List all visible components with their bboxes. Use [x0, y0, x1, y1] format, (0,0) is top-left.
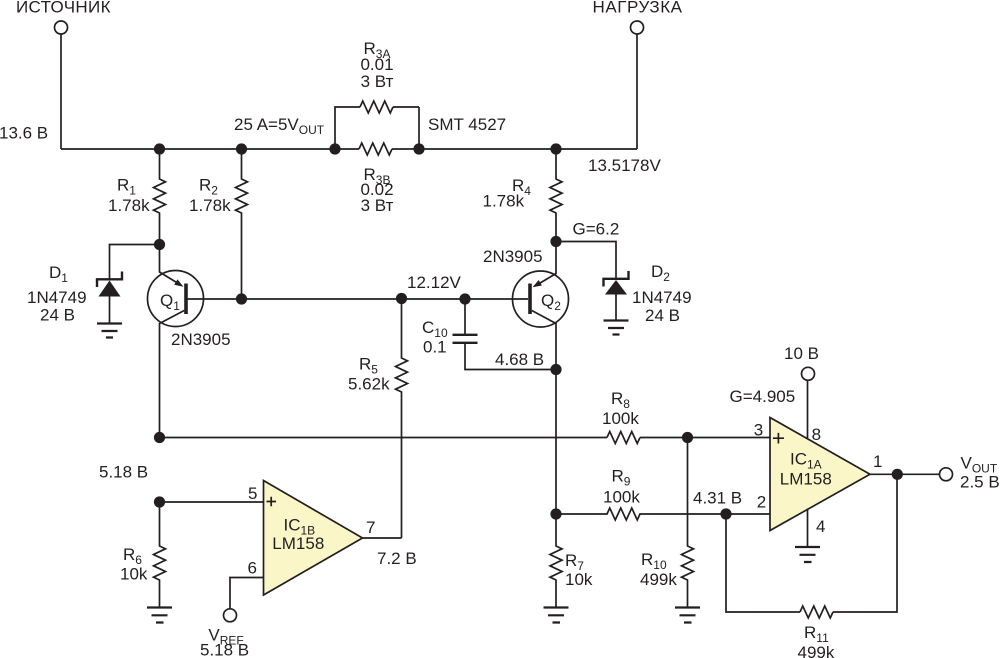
- wire base net Q1-Q2: [186, 298, 528, 300]
- svg-text:3 Вт: 3 Вт: [361, 72, 394, 91]
- wire output: [870, 473, 940, 475]
- svg-text:R2: R2: [199, 176, 218, 198]
- svg-text:R5: R5: [359, 355, 378, 377]
- ground R7: [544, 608, 569, 623]
- svg-text:R9: R9: [612, 467, 631, 489]
- ground D1: [97, 324, 122, 338]
- resistor R5: [396, 299, 408, 538]
- svg-text:R10: R10: [641, 550, 667, 572]
- svg-text:R1: R1: [117, 176, 136, 198]
- resistor R8: [607, 432, 640, 444]
- svg-text:10 В: 10 В: [784, 344, 819, 363]
- svg-text:13.6 В: 13.6 В: [0, 124, 48, 143]
- wire R8 to pin3: [640, 437, 770, 439]
- svg-text:5.18 В: 5.18 В: [200, 641, 249, 658]
- svg-text:R11: R11: [804, 623, 829, 645]
- node dot R8-R10: [682, 432, 693, 443]
- svg-text:1: 1: [873, 452, 882, 471]
- ground R6: [147, 608, 172, 623]
- terminal 10V: [802, 367, 815, 380]
- wire feedback R11: [726, 514, 800, 612]
- svg-text:1N4749: 1N4749: [632, 288, 692, 307]
- node dot R4-emitter: [550, 236, 561, 247]
- svg-text:1.78k: 1.78k: [108, 196, 150, 215]
- svg-text:R8: R8: [611, 389, 630, 411]
- svg-text:24 В: 24 В: [645, 306, 680, 325]
- svg-text:24 В: 24 В: [40, 306, 75, 325]
- op-amp IC1B: [264, 481, 363, 596]
- svg-text:13.5178V: 13.5178V: [588, 156, 661, 175]
- node dot base-R5: [396, 293, 407, 304]
- svg-text:3 Вт: 3 Вт: [361, 196, 394, 215]
- node dot Q2col-R9: [550, 508, 561, 519]
- plus IC1A: [773, 433, 784, 444]
- node dot rail-R4: [550, 143, 561, 154]
- node dot R1-D1: [154, 239, 165, 250]
- svg-text:Q2: Q2: [541, 291, 561, 313]
- node dot Q1col-pin5: [154, 496, 165, 507]
- resistor R4: [550, 149, 562, 242]
- capacitor C10: [464, 299, 466, 334]
- svg-text:2N3905: 2N3905: [171, 330, 231, 349]
- transistor Q1: [148, 271, 204, 327]
- svg-text:Q1: Q1: [160, 291, 180, 313]
- resistor R9: [556, 508, 770, 520]
- svg-text:LM158: LM158: [780, 470, 832, 489]
- svg-text:8: 8: [812, 425, 821, 444]
- svg-text:499k: 499k: [640, 570, 677, 589]
- svg-text:SMT 4527: SMT 4527: [428, 115, 506, 134]
- svg-text:G=4.905: G=4.905: [730, 387, 796, 406]
- svg-text:G=6.2: G=6.2: [573, 220, 620, 239]
- svg-text:0.1: 0.1: [423, 338, 447, 357]
- wire to R8: [160, 437, 608, 439]
- svg-text:D2: D2: [651, 262, 670, 284]
- svg-text:4.68 В: 4.68 В: [495, 350, 544, 369]
- svg-text:25 A=5VOUT: 25 A=5VOUT: [234, 115, 325, 137]
- svg-text:LM158: LM158: [272, 534, 324, 553]
- wire D2 branch: [556, 242, 616, 279]
- svg-text:2.5 В: 2.5 В: [960, 473, 1000, 492]
- svg-text:499k: 499k: [798, 643, 835, 658]
- node dot base-C10: [459, 293, 470, 304]
- wire source terminal down: [60, 34, 62, 150]
- svg-text:12.12V: 12.12V: [407, 273, 462, 292]
- node dot collector Q1 feedback: [154, 432, 165, 443]
- svg-text:6: 6: [248, 559, 257, 578]
- terminal ИСТОЧНИК: [55, 21, 68, 34]
- resistor R7: [550, 514, 562, 608]
- resistor R2: [236, 149, 248, 299]
- wire to pin5: [160, 501, 264, 503]
- node dot collector-C10 4.68V: [550, 364, 561, 375]
- wire IC1B output: [363, 537, 402, 539]
- wire pin4: [807, 509, 809, 548]
- svg-text:100k: 100k: [602, 409, 639, 428]
- diode D1 zener: [97, 272, 122, 288]
- node dot output: [892, 469, 903, 480]
- svg-text:2: 2: [757, 493, 766, 512]
- resistor R3A (zigzag upper branch): [360, 101, 393, 113]
- resistor R6: [154, 502, 166, 608]
- svg-text:НАГРУЗКА: НАГРУЗКА: [593, 0, 683, 17]
- wire load branch up: [636, 34, 638, 150]
- svg-text:5.18 В: 5.18 В: [99, 463, 148, 482]
- svg-text:5: 5: [248, 484, 257, 503]
- resistor R3B (zigzag on rail): [359, 143, 392, 155]
- resistor R11: [800, 606, 833, 618]
- svg-text:1.78k: 1.78k: [189, 196, 231, 215]
- ground IC1A: [795, 547, 820, 562]
- svg-text:1N4749: 1N4749: [27, 288, 87, 307]
- resistor R1: [154, 149, 166, 245]
- op-amp IC1A: [770, 418, 870, 531]
- terminal VREF: [224, 609, 237, 622]
- node dot R9-pin2: [720, 508, 731, 519]
- svg-text:1.78k: 1.78k: [483, 192, 525, 211]
- wire R3A branch: [335, 107, 419, 149]
- node dot rail-R3 left: [329, 143, 340, 154]
- svg-text:7.2 В: 7.2 В: [377, 549, 417, 568]
- node dot rail-R1: [154, 143, 165, 154]
- resistor R10: [682, 438, 694, 608]
- wire pin8: [807, 380, 809, 438]
- wire rail right of R3B: [392, 148, 637, 150]
- node dot rail-R3 right: [413, 143, 424, 154]
- svg-text:D1: D1: [49, 263, 68, 285]
- terminal НАГРУЗКА: [631, 21, 644, 34]
- node dot rail-R2: [236, 143, 247, 154]
- wire D1 branch: [110, 245, 160, 280]
- terminal VOUT: [940, 468, 953, 481]
- transistor Q2: [513, 271, 569, 327]
- svg-text:2N3905: 2N3905: [483, 247, 543, 266]
- svg-text:5.62k: 5.62k: [348, 375, 390, 394]
- svg-text:4.31 В: 4.31 В: [693, 488, 742, 507]
- plus IC1B: [267, 497, 277, 506]
- ground D2: [604, 321, 629, 335]
- node dot base-R2: [236, 293, 247, 304]
- wire pin6 to VREF: [230, 578, 264, 610]
- svg-text:4: 4: [816, 517, 825, 536]
- svg-text:10k: 10k: [565, 570, 593, 589]
- svg-text:100k: 100k: [603, 488, 640, 507]
- diode D2 zener: [604, 271, 629, 287]
- wire top rail: [61, 148, 359, 150]
- svg-text:3: 3: [754, 420, 763, 439]
- ground R10: [675, 608, 700, 623]
- svg-text:ИСТОЧНИК: ИСТОЧНИК: [16, 0, 111, 17]
- svg-text:7: 7: [366, 518, 375, 537]
- svg-text:10k: 10k: [120, 565, 148, 584]
